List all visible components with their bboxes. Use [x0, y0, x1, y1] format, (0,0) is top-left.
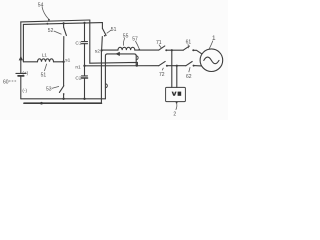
leader 52	[54, 31, 62, 34]
wire outer top bus	[21, 20, 90, 22]
node 62 contact	[193, 65, 195, 67]
leader 61	[187, 44, 190, 48]
node 71 contact	[165, 49, 167, 51]
junction dots	[19, 19, 195, 105]
svg-text:53: 53	[46, 86, 52, 92]
leader 51 bottom	[44, 64, 46, 71]
node 61 contact	[192, 49, 194, 51]
leader 51 top	[107, 30, 112, 34]
break mark 57 on loop right	[136, 56, 138, 60]
node 72 contact	[166, 65, 168, 67]
leader 60 dashed	[9, 80, 17, 82]
wire box edge to loop right	[90, 62, 138, 65]
node loop right on n1	[136, 64, 138, 66]
wire heavy bottom line	[24, 102, 101, 104]
wire loop top edge	[107, 54, 136, 66]
svg-text:72: 72	[159, 72, 165, 78]
wire to switch 71	[135, 49, 159, 51]
box 2 voltage sensor	[166, 87, 186, 101]
node 2 leader end	[176, 102, 178, 104]
svg-text:n1: n1	[75, 65, 81, 71]
node 53 bottom	[62, 98, 64, 100]
switch 62	[186, 62, 192, 66]
wire loop left riser	[105, 54, 107, 99]
switch 52	[63, 23, 65, 27]
node inner bus dot	[46, 23, 48, 25]
wire to L1	[23, 61, 37, 63]
AC source circle 1	[200, 49, 223, 72]
label square in box2	[178, 92, 182, 96]
leader 55	[123, 38, 124, 46]
arrow loop current left	[115, 52, 120, 56]
svg-text:71: 71	[156, 40, 162, 46]
node 53 blade bottom	[63, 93, 65, 95]
leader 71	[159, 45, 162, 49]
leader 72	[162, 68, 163, 71]
wire L1 to s1	[54, 61, 64, 63]
svg-text:C1: C1	[75, 40, 81, 46]
switch 53	[63, 62, 65, 86]
leader 57	[135, 41, 139, 49]
node 54 leader end	[48, 19, 50, 21]
svg-text:62: 62	[186, 74, 192, 80]
svg-text:s1: s1	[65, 57, 70, 63]
break mark on loop left	[105, 84, 107, 88]
node 51 blade	[104, 35, 106, 37]
wire inner top bus	[23, 23, 102, 25]
node n1	[83, 65, 85, 67]
wire outer right edge	[89, 20, 91, 63]
sine wave	[204, 57, 219, 64]
node heavy line dot	[40, 102, 43, 105]
switch 51	[101, 23, 103, 29]
svg-text:1: 1	[212, 35, 216, 42]
svg-text:(-): (-)	[22, 88, 27, 93]
svg-text:57: 57	[132, 37, 138, 43]
inductor 55	[118, 47, 135, 50]
leader 54	[42, 7, 49, 20]
wire box2 riser from bottom line	[176, 66, 178, 88]
node s2	[100, 49, 102, 51]
arrow battery current up	[19, 56, 23, 61]
wire n1 line	[85, 65, 159, 67]
svg-text:2: 2	[173, 112, 176, 118]
capacitor C1	[84, 23, 86, 42]
wire riser A to s2	[100, 50, 102, 103]
node C2 bottom	[83, 98, 85, 100]
switch 71	[159, 46, 165, 50]
leader 2	[176, 103, 177, 110]
wire box2 riser from top line	[171, 50, 173, 87]
wire s2 line	[102, 49, 118, 51]
svg-text:60: 60	[3, 79, 9, 85]
leader 1	[209, 41, 213, 49]
inductor L1	[38, 59, 54, 62]
svg-text:L1: L1	[42, 53, 48, 59]
label V in box2	[172, 92, 177, 96]
leader lines	[9, 7, 213, 110]
switch 61	[183, 46, 189, 50]
svg-text:51: 51	[41, 72, 47, 78]
svg-text:C2: C2	[75, 75, 81, 81]
switch 72	[159, 61, 165, 65]
node box2 top junction	[171, 49, 173, 51]
node 57 leader end	[139, 49, 141, 51]
leader 53	[52, 86, 59, 88]
svg-text:55: 55	[123, 34, 129, 40]
svg-text:61: 61	[186, 39, 192, 45]
wire inner left edge	[22, 24, 24, 61]
svg-text:51: 51	[111, 27, 117, 33]
leader 62	[189, 67, 190, 72]
battery 60	[20, 22, 22, 73]
capacitor C2	[84, 66, 86, 76]
component value glyphs inside box 2	[172, 92, 182, 96]
svg-text:52: 52	[48, 28, 54, 34]
svg-text:s2: s2	[95, 48, 100, 54]
node C1 top	[83, 22, 85, 24]
node box2 bottom junction	[176, 65, 178, 67]
node 52 top	[63, 22, 65, 24]
svg-text:54: 54	[38, 3, 44, 9]
node s1	[62, 61, 64, 63]
svg-text:(+): (+)	[22, 70, 28, 75]
wire bottom bus	[21, 98, 106, 100]
